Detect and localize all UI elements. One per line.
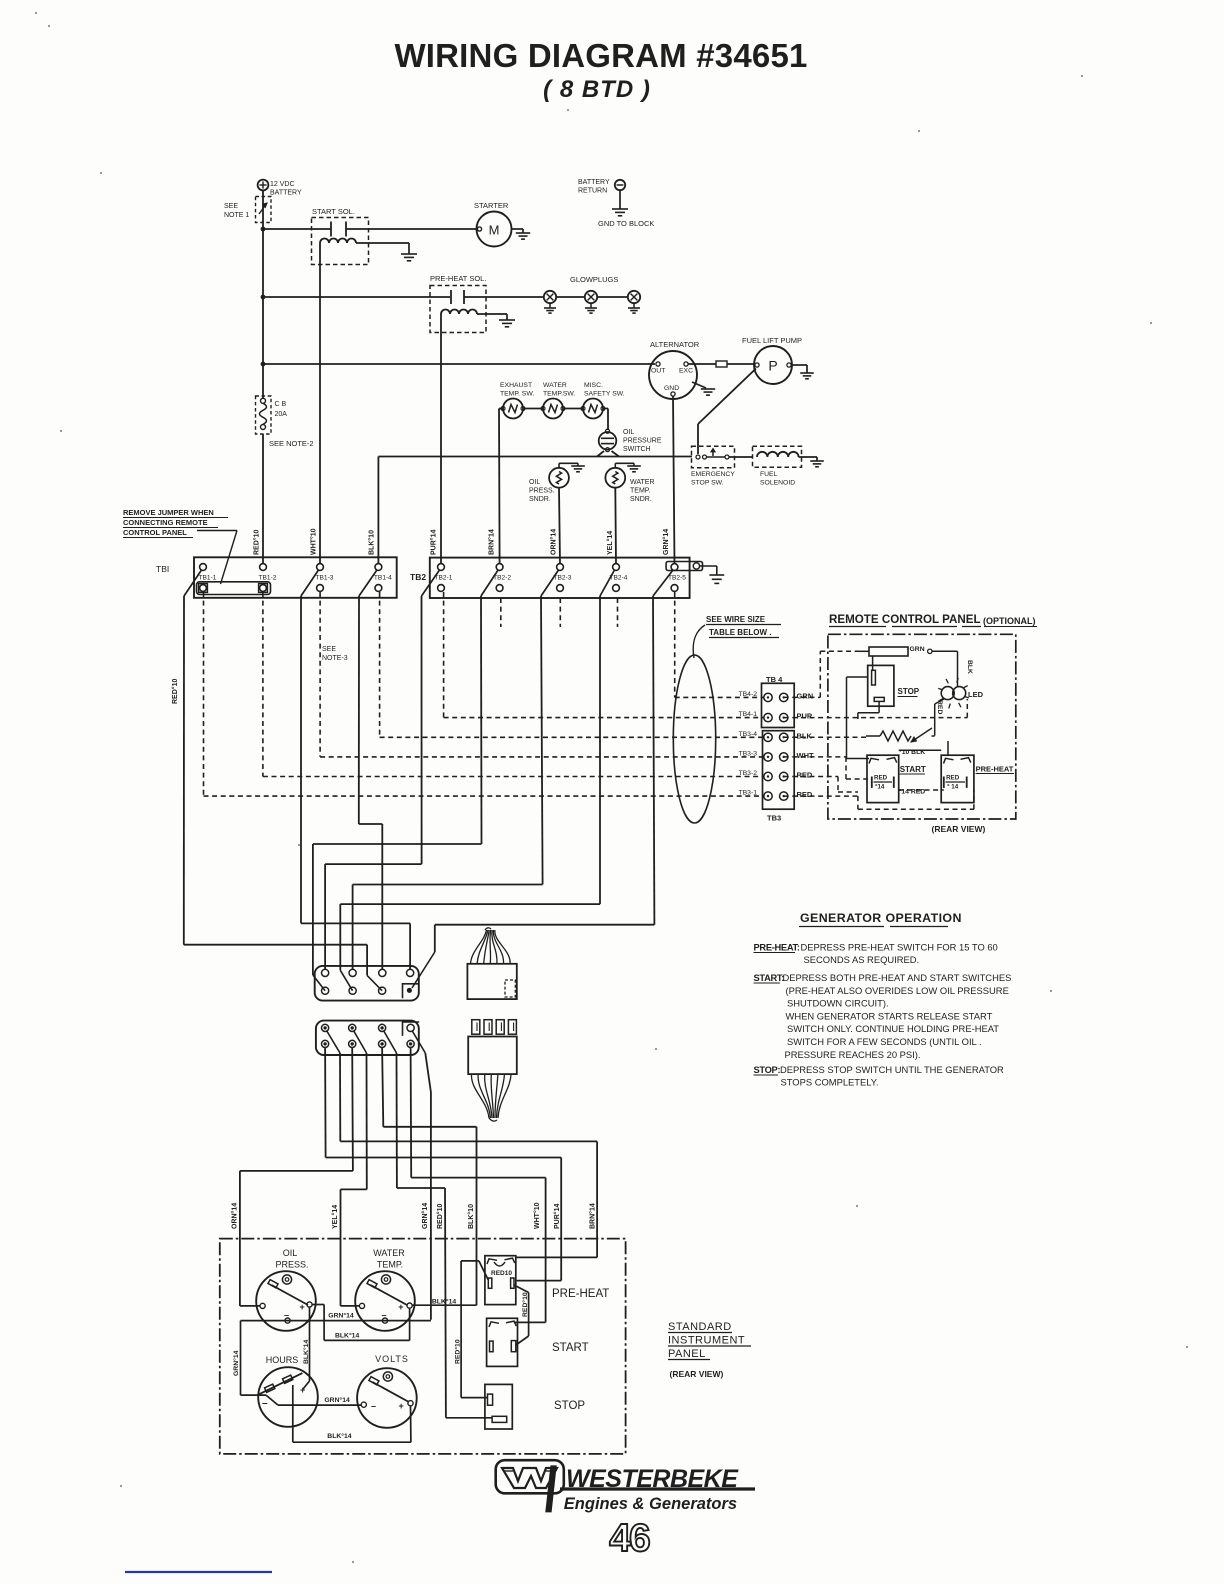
svg-text:REMOVE JUMPER WHEN: REMOVE JUMPER WHEN: [123, 508, 214, 517]
svg-text:NOTE-3: NOTE-3: [322, 655, 348, 662]
svg-text:DEPRESS PRE-HEAT SWITCH FOR 1: DEPRESS PRE-HEAT SWITCH FOR 15 TO 60: [801, 942, 998, 953]
svg-text:OIL: OIL: [283, 1248, 298, 1258]
svg-text:STOP: STOP: [898, 687, 920, 696]
svg-text:TB3-1: TB3-1: [738, 790, 757, 797]
svg-text:( 8 BTD ): ( 8 BTD ): [543, 76, 651, 103]
svg-text:RED: RED: [874, 775, 888, 782]
svg-text:RED10: RED10: [491, 1270, 512, 1277]
svg-text:WHEN GENERATOR STARTS RELEASE: WHEN GENERATOR STARTS RELEASE START: [786, 1010, 993, 1021]
svg-text:GRN°14: GRN°14: [662, 529, 670, 555]
svg-text:STOPS COMPLETELY.: STOPS COMPLETELY.: [781, 1077, 879, 1088]
svg-text:BATTERY: BATTERY: [270, 190, 302, 197]
svg-text:START SOL.: START SOL.: [312, 207, 355, 216]
svg-text:YEL°14: YEL°14: [331, 1205, 339, 1229]
svg-text:SEE WIRE SIZE: SEE WIRE SIZE: [706, 615, 766, 624]
svg-text:GND TO BLOCK: GND TO BLOCK: [598, 219, 654, 228]
svg-text:HOURS: HOURS: [266, 1355, 299, 1365]
svg-text:TB1-2: TB1-2: [259, 575, 277, 582]
svg-text:TB4-1: TB4-1: [738, 711, 757, 718]
svg-text:TB1-3: TB1-3: [316, 575, 334, 582]
svg-text:BLK°14: BLK°14: [327, 1432, 351, 1440]
svg-text:START:: START:: [754, 973, 785, 983]
svg-text:TEMP. SW.: TEMP. SW.: [500, 391, 534, 398]
svg-text:SNDR.: SNDR.: [529, 496, 551, 503]
svg-text:SECONDS AS REQUIRED.: SECONDS AS REQUIRED.: [804, 954, 920, 965]
svg-text:BLK°14: BLK°14: [302, 1340, 310, 1364]
svg-text:TB2-5: TB2-5: [668, 575, 686, 582]
svg-text:RED: RED: [797, 790, 813, 799]
svg-text:TB2-2: TB2-2: [493, 575, 511, 582]
svg-text:SWITCH: SWITCH: [623, 446, 651, 453]
svg-text:CONTROL PANEL: CONTROL PANEL: [123, 528, 187, 537]
svg-text:PRE-HEAT SOL.: PRE-HEAT SOL.: [430, 274, 486, 283]
svg-text:STANDARD: STANDARD: [668, 1321, 732, 1333]
svg-text:BLK: BLK: [797, 731, 813, 740]
svg-text:WHT°10: WHT°10: [533, 1202, 541, 1229]
svg-text:WATER: WATER: [373, 1248, 405, 1258]
svg-text:(PRE-HEAT ALSO OVERIDES LOW OI: (PRE-HEAT ALSO OVERIDES LOW OIL PRESSURE: [786, 985, 1009, 996]
svg-text:RED°10: RED°10: [454, 1339, 462, 1364]
svg-text:RED°10: RED°10: [521, 1292, 529, 1317]
svg-text:20A: 20A: [275, 411, 288, 418]
svg-text:TB3: TB3: [767, 814, 781, 823]
svg-text:TB2-1: TB2-1: [435, 575, 453, 582]
svg-text:RED°10: RED°10: [253, 530, 261, 555]
svg-text:WIRING DIAGRAM #34651: WIRING DIAGRAM #34651: [394, 37, 807, 74]
svg-text:STOP:: STOP:: [754, 1065, 781, 1075]
svg-text:SAFETY SW.: SAFETY SW.: [584, 391, 625, 398]
svg-text:Engines & Generators: Engines & Generators: [564, 1495, 737, 1513]
svg-text:SEE: SEE: [322, 646, 336, 653]
svg-text:(OPTIONAL): (OPTIONAL): [983, 616, 1036, 626]
svg-text:GRN°14: GRN°14: [324, 1396, 350, 1404]
svg-text:+: +: [399, 1401, 404, 1411]
svg-text:YEL°14: YEL°14: [606, 531, 614, 555]
svg-text:TB 4: TB 4: [766, 675, 783, 684]
svg-text:PUR: PUR: [797, 712, 813, 721]
svg-text:PUR°14: PUR°14: [553, 1204, 561, 1229]
svg-text:FUEL: FUEL: [760, 471, 778, 478]
svg-text:INSTRUMENT: INSTRUMENT: [668, 1335, 745, 1347]
svg-text:TABLE BELOW .: TABLE BELOW .: [709, 628, 772, 637]
svg-text:TBI: TBI: [156, 564, 169, 574]
svg-text:TB1-1: TB1-1: [199, 575, 217, 582]
svg-text:+: +: [300, 1302, 305, 1312]
svg-text:PRESSURE REACHES 20 PSI).: PRESSURE REACHES 20 PSI).: [785, 1049, 921, 1060]
svg-text:GRN°14: GRN°14: [421, 1203, 429, 1229]
svg-text:STARTER: STARTER: [474, 201, 509, 210]
svg-text:GRN°14: GRN°14: [232, 1350, 240, 1376]
svg-text:°10 BLK: °10 BLK: [899, 748, 925, 756]
svg-text:ALTERNATOR: ALTERNATOR: [650, 340, 700, 349]
svg-text:CONNECTING REMOTE: CONNECTING REMOTE: [123, 518, 208, 527]
svg-text:PRESSURE: PRESSURE: [623, 438, 662, 445]
svg-text:TB4-2: TB4-2: [738, 691, 757, 698]
svg-text:TEMP.: TEMP.: [630, 488, 651, 495]
svg-text:RED: RED: [936, 700, 943, 714]
svg-text:GRN: GRN: [797, 691, 814, 700]
svg-text:C B: C B: [275, 401, 287, 408]
svg-text:GRN: GRN: [910, 646, 925, 653]
svg-text:°14: °14: [875, 784, 885, 791]
svg-text:RETURN: RETURN: [578, 188, 607, 195]
svg-text:RED°10: RED°10: [436, 1204, 444, 1229]
svg-text:12 VDC: 12 VDC: [270, 181, 295, 188]
svg-text:OIL: OIL: [623, 429, 634, 436]
svg-text:BLK: BLK: [966, 660, 973, 674]
svg-text:–: –: [284, 1310, 289, 1320]
svg-text:PRESS.: PRESS.: [529, 488, 555, 495]
svg-text:EMERGENCY: EMERGENCY: [691, 471, 735, 478]
svg-text:GRN°14: GRN°14: [328, 1312, 354, 1320]
svg-text:PRE-HEAT:: PRE-HEAT:: [754, 943, 800, 953]
svg-text:BLK°14: BLK°14: [432, 1298, 456, 1306]
svg-text:RED°10: RED°10: [171, 679, 179, 704]
svg-text:(REAR VIEW): (REAR VIEW): [932, 824, 986, 834]
svg-text:TB2: TB2: [410, 572, 426, 582]
svg-text:WHT: WHT: [797, 751, 814, 760]
svg-text:(REAR VIEW): (REAR VIEW): [670, 1369, 724, 1379]
svg-text:EXHAUST: EXHAUST: [500, 382, 532, 389]
svg-text:START: START: [552, 1342, 589, 1354]
svg-text:°14 RED: °14 RED: [899, 788, 926, 796]
svg-text:SWITCH FOR A FEW SECONDS (UNT: SWITCH FOR A FEW SECONDS (UNTIL OIL .: [787, 1036, 982, 1047]
svg-text:P: P: [768, 358, 777, 374]
svg-text:WATER: WATER: [630, 479, 655, 486]
svg-text:PANEL: PANEL: [668, 1348, 706, 1360]
svg-text:WATER: WATER: [543, 382, 567, 389]
svg-text:OIL: OIL: [529, 479, 540, 486]
svg-text:SHUTDOWN CIRCUIT).: SHUTDOWN CIRCUIT).: [787, 998, 889, 1009]
svg-text:ORN°14: ORN°14: [550, 529, 558, 555]
svg-text:START: START: [900, 765, 926, 774]
svg-text:STOP SW.: STOP SW.: [691, 480, 724, 487]
svg-text:TEMP.SW.: TEMP.SW.: [543, 391, 575, 398]
svg-text:46: 46: [609, 1517, 650, 1560]
svg-text:+: +: [398, 1302, 403, 1312]
svg-text:STOP: STOP: [554, 1400, 585, 1412]
svg-text:° 14: ° 14: [947, 784, 959, 791]
svg-text:WHT°10: WHT°10: [310, 528, 318, 555]
svg-text:NOTE 1: NOTE 1: [224, 212, 249, 219]
svg-text:M: M: [489, 223, 500, 238]
svg-text:BLK°14: BLK°14: [335, 1332, 359, 1340]
svg-text:TB2-3: TB2-3: [554, 575, 572, 582]
svg-text:PUR°14: PUR°14: [430, 530, 438, 555]
svg-text:MISC.: MISC.: [584, 382, 603, 389]
svg-text:LED: LED: [968, 690, 984, 699]
svg-text:ORN°14: ORN°14: [230, 1203, 238, 1229]
svg-text:RED: RED: [946, 775, 960, 782]
svg-text:FUEL LIFT PUMP: FUEL LIFT PUMP: [742, 336, 802, 345]
svg-text:–: –: [262, 1398, 268, 1409]
svg-text:PRESS.: PRESS.: [275, 1260, 308, 1270]
svg-text:OUT: OUT: [651, 368, 665, 375]
svg-text:SOLENOID: SOLENOID: [760, 480, 795, 487]
svg-text:VOLTS: VOLTS: [375, 1354, 409, 1364]
svg-text:SWITCH ONLY. CONTINUE HOLDING: SWITCH ONLY. CONTINUE HOLDING PRE-HEAT: [787, 1023, 999, 1034]
svg-text:GLOWPLUGS: GLOWPLUGS: [570, 275, 618, 284]
svg-text:–: –: [371, 1401, 376, 1411]
svg-text:GND: GND: [664, 385, 679, 392]
svg-text:RED: RED: [797, 771, 813, 780]
svg-text:TEMP.: TEMP.: [377, 1260, 403, 1270]
svg-text:SNDR.: SNDR.: [630, 496, 652, 503]
svg-text:BLK°10: BLK°10: [467, 1204, 475, 1229]
svg-text:REMOTE CONTROL PANEL: REMOTE CONTROL PANEL: [829, 613, 981, 626]
svg-text:TB1-4: TB1-4: [374, 575, 392, 582]
svg-text:BLK°10: BLK°10: [368, 530, 376, 555]
svg-text:BATTERY: BATTERY: [578, 179, 610, 186]
svg-text:TB3-3: TB3-3: [738, 750, 757, 757]
svg-text:SEE NOTE-2: SEE NOTE-2: [269, 439, 314, 448]
svg-text:BRN°14: BRN°14: [588, 1203, 596, 1229]
svg-text:SEE: SEE: [224, 203, 238, 210]
svg-text:GENERATOR OPERATION: GENERATOR OPERATION: [800, 911, 962, 925]
svg-text:DEPRESS BOTH PRE-HEAT AND STAR: DEPRESS BOTH PRE-HEAT AND START SWITCHES: [783, 972, 1012, 983]
svg-text:–: –: [382, 1310, 387, 1320]
svg-text:PRE-HEAT: PRE-HEAT: [976, 765, 1014, 774]
svg-text:TB3-2: TB3-2: [738, 770, 757, 777]
svg-text:BRN°14: BRN°14: [488, 529, 496, 555]
svg-text:DEPRESS STOP SWITCH UNTIL THE: DEPRESS STOP SWITCH UNTIL THE GENERATOR: [780, 1064, 1004, 1075]
svg-text:TB3-4: TB3-4: [738, 731, 757, 738]
svg-text:PRE-HEAT: PRE-HEAT: [552, 1288, 609, 1300]
svg-text:EXC: EXC: [679, 368, 693, 375]
